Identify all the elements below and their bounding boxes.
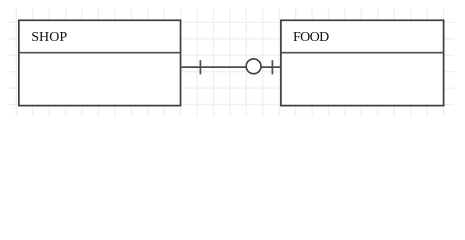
entity SHOP title separator (19, 52, 181, 54)
svg-text:FOOD: FOOD (293, 30, 329, 45)
one tick (SHOP side) (199, 60, 201, 74)
one tick (FOOD side) (271, 60, 273, 74)
entity SHOP box (19, 20, 181, 105)
zero circle (FOOD side) (246, 59, 261, 74)
relationship wire (181, 66, 280, 68)
entity FOOD box (281, 20, 444, 105)
entity FOOD title separator (281, 52, 444, 54)
svg-text:SHOP: SHOP (31, 30, 67, 45)
